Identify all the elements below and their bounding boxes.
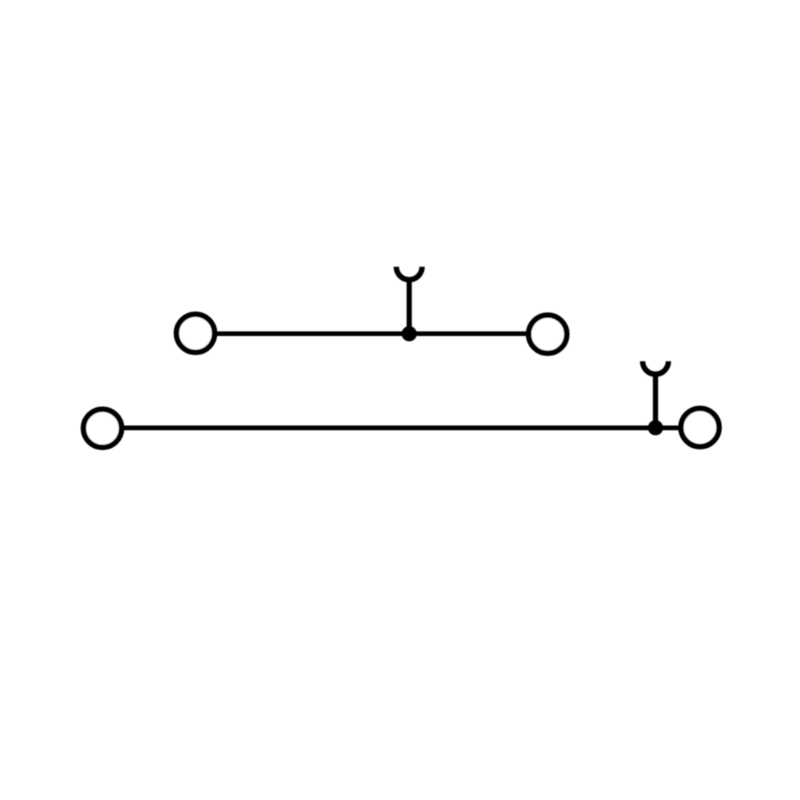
terminal circle: lower left clamp point	[83, 409, 121, 447]
terminal circle: lower right clamp point	[681, 408, 719, 446]
wire: upper level conductor	[196, 331, 548, 336]
wire: lower tap stem	[653, 373, 658, 428]
wire: lower level conductor	[103, 426, 701, 431]
node: junction dot on lower level	[648, 420, 663, 435]
wire: upper tap stem	[407, 278, 412, 334]
terminal circle: upper left clamp point	[176, 314, 214, 352]
fork contact (plug-in socket) on lower level	[643, 361, 669, 374]
node: junction dot on upper level	[402, 326, 417, 341]
terminal circle: upper right clamp point	[529, 315, 567, 353]
fork contact (plug-in socket) on upper level	[396, 267, 422, 280]
